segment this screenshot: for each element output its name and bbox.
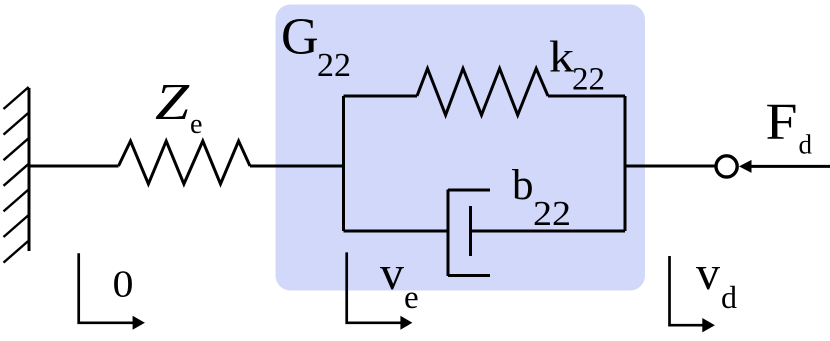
svg-text:22: 22 [317,47,351,84]
svg-text:e: e [190,109,202,140]
svg-text:k: k [549,33,574,82]
svg-text:22: 22 [533,194,571,233]
svg-text:0: 0 [113,264,134,306]
svg-text:d: d [799,130,813,160]
svg-text:v: v [380,247,404,300]
svg-text:e: e [404,280,419,316]
svg-text:F: F [766,93,798,150]
svg-text:Z: Z [155,74,190,131]
svg-text:v: v [696,247,720,300]
svg-text:b: b [512,162,534,209]
svg-text:22: 22 [572,62,605,98]
svg-text:d: d [721,279,737,315]
svg-text:G: G [281,8,319,65]
